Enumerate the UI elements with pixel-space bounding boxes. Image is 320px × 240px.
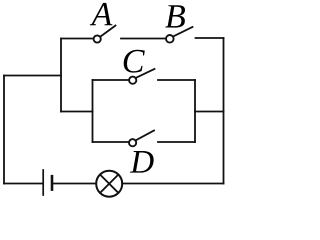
lamp bulb circle	[96, 171, 122, 197]
battery short plate (negative)	[51, 176, 54, 189]
lamp X diagonal 1	[100, 175, 118, 193]
label B	[165, 5, 185, 27]
wire from B to top-right corner	[196, 37, 224, 39]
switch A pivot circle	[94, 35, 101, 42]
switch B pivot circle	[166, 35, 174, 43]
wire parallel-box right vertical	[194, 80, 196, 142]
battery long plate (positive)	[42, 170, 44, 195]
switch B blade	[173, 27, 192, 36]
wire left vertical of top branch	[60, 39, 62, 112]
wire mid-right horizontal	[195, 111, 224, 113]
label A	[90, 3, 113, 25]
switch A blade	[100, 26, 115, 37]
wire top-left segment to switch A	[61, 38, 94, 40]
wire lamp to bottom-right corner	[122, 183, 223, 185]
wire C row right segment	[158, 79, 195, 81]
wire D row right segment	[158, 141, 195, 143]
wire outer left horizontal	[4, 75, 61, 77]
wire between A and B	[121, 38, 166, 40]
lamp X diagonal 2	[100, 175, 118, 193]
switch C pivot circle	[129, 77, 136, 84]
wire bottom-left segment to battery	[4, 183, 43, 185]
switch C blade	[136, 69, 155, 78]
switch D pivot circle	[129, 139, 136, 146]
wire D row left segment	[93, 141, 130, 143]
wire parallel-box left vertical	[92, 80, 94, 142]
wire battery to lamp	[54, 183, 97, 185]
label C	[124, 50, 145, 73]
wire outer left vertical	[3, 76, 5, 184]
label D	[130, 151, 154, 173]
wire mid-left horizontal	[61, 111, 93, 113]
wire C row left segment	[93, 79, 130, 81]
switch D blade	[136, 131, 154, 141]
wire outer right vertical	[223, 38, 225, 184]
